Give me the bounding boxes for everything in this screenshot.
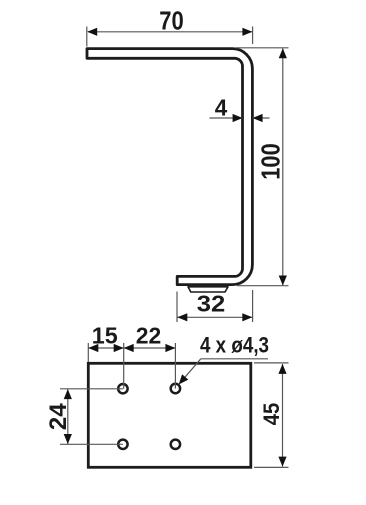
dimension 32 extension line left — [176, 292, 178, 323]
dimension 15 arrow left — [88, 344, 98, 352]
dimension 70 extension line left — [86, 27, 88, 47]
hole H1 top-left — [118, 384, 127, 393]
dimension 15 text — [92, 322, 118, 348]
dimension 32 line — [177, 316, 252, 318]
hole callout leader diagonal — [181, 359, 201, 383]
dimension 22 text — [136, 322, 162, 348]
dimension 70 arrow left — [87, 28, 97, 36]
svg-text:70: 70 — [159, 6, 184, 36]
dimension 45 extension line top — [254, 362, 289, 364]
dimension 45 text — [259, 403, 284, 426]
dimension 4 line right tail — [253, 117, 270, 119]
dimension 4 line left tail — [210, 117, 243, 119]
dimension 70 text — [159, 6, 184, 36]
dimension 24 arrow bottom — [64, 434, 72, 444]
hole callout leader arrowhead — [179, 374, 189, 384]
hole H2 centerline vertical — [174, 343, 176, 389]
dimension 70 line — [88, 31, 252, 33]
hole H1 centerline vertical — [123, 343, 125, 389]
dimension 24 extension line top — [60, 388, 123, 390]
dimension 100 extension line top — [236, 47, 289, 49]
svg-text:45: 45 — [259, 403, 284, 426]
svg-text:32: 32 — [197, 290, 226, 316]
dimension 70 extension line right — [252, 27, 254, 45]
dimension 24 extension line bottom — [60, 443, 123, 445]
hole H3 bottom-left — [118, 440, 127, 449]
dimension 15 extension line left — [87, 343, 89, 362]
dimension 4 arrow left — [233, 114, 243, 122]
dimension 32 arrow left — [177, 313, 187, 321]
dimension 45 extension line bottom — [254, 466, 289, 468]
dimension 32 arrow right — [242, 313, 252, 321]
hole H4 bottom-right — [171, 440, 180, 449]
dimension 100 arrow top — [279, 48, 287, 58]
dimension 32 extension line right — [252, 290, 254, 322]
bracket profile outline — [87, 49, 252, 285]
dimension 15-22 bowtie arrows at hole1 — [114, 344, 134, 352]
base plate outline — [88, 363, 251, 467]
svg-text:22: 22 — [136, 322, 162, 348]
dimension 4 arrow right — [253, 114, 263, 122]
dimension 24 line — [67, 389, 69, 444]
dimension 24 text — [45, 403, 72, 430]
svg-text:4: 4 — [215, 95, 228, 121]
dimension 70 arrow right — [242, 28, 252, 36]
svg-text:100: 100 — [256, 143, 286, 180]
dimension 24 arrow top — [64, 389, 72, 399]
hole callout leader shoulder — [201, 358, 268, 360]
foot strip under bottom leg — [188, 287, 228, 292]
dimension 45 arrow top — [278, 364, 286, 374]
hole callout text 4 x dia 4,3 — [200, 333, 269, 358]
dimension 100 extension line bottom — [237, 285, 289, 287]
dimension 32 text — [197, 290, 226, 316]
dimension 100 arrow bottom — [279, 276, 287, 286]
svg-text:24: 24 — [45, 403, 72, 430]
dimension 4 text — [215, 95, 228, 121]
dimension 100 line — [282, 49, 284, 286]
hole H2 top-right — [171, 384, 180, 393]
dimension 45 arrow bottom — [278, 457, 286, 467]
dimension 22 arrow right — [165, 344, 175, 352]
dimension 15-22 line — [88, 347, 175, 349]
dimension 45 line — [282, 364, 284, 467]
dimension 100 text — [256, 143, 286, 180]
svg-text:15: 15 — [92, 322, 118, 348]
svg-text:4 x ø4,3: 4 x ø4,3 — [200, 333, 269, 358]
